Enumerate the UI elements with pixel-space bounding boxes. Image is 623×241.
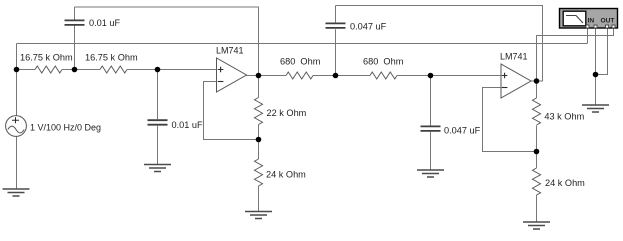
svg-text:16.75 k Ohm: 16.75 k Ohm [20, 53, 73, 63]
svg-text:24 k Ohm: 24 k Ohm [266, 169, 306, 179]
svg-text:24 k Ohm: 24 k Ohm [545, 178, 585, 188]
svg-text:43 k Ohm: 43 k Ohm [544, 111, 584, 121]
svg-text:LM741: LM741 [216, 46, 244, 56]
svg-text:0.047 uF: 0.047 uF [350, 22, 387, 32]
svg-text:1 V/100 Hz/0 Deg: 1 V/100 Hz/0 Deg [30, 123, 101, 133]
svg-text:LM741: LM741 [500, 52, 528, 62]
svg-text:16.75 k Ohm: 16.75 k Ohm [85, 53, 138, 63]
svg-text:680 Ohm: 680 Ohm [280, 57, 321, 67]
svg-text:0.01 uF: 0.01 uF [172, 120, 204, 130]
svg-text:22 k Ohm: 22 k Ohm [267, 108, 307, 118]
svg-text:OUT: OUT [601, 18, 615, 25]
svg-text:IN: IN [588, 18, 595, 25]
svg-text:0.01 uF: 0.01 uF [89, 18, 121, 28]
svg-text:0.047 uF: 0.047 uF [444, 126, 481, 136]
svg-text:680 Ohm: 680 Ohm [363, 57, 404, 67]
